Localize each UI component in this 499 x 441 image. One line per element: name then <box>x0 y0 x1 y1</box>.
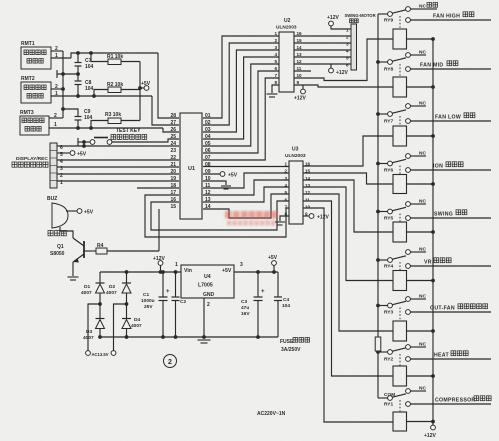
wire U1 pin12 to U3 pin3 <box>203 180 289 195</box>
wire U1 pin17 to U3 pin7 <box>145 195 289 237</box>
U1 pin 18 <box>170 183 176 189</box>
ground U1 pin10 <box>203 181 231 189</box>
wire U1 pin02 to U2 pin2 <box>203 43 279 125</box>
capacitor C4 104 <box>274 272 290 337</box>
+5V terminal U1 pin09 <box>203 172 238 179</box>
relay RY6 <box>378 151 491 194</box>
wire C9 branch <box>63 109 78 116</box>
U1 pin 21 <box>170 162 176 168</box>
display pin 2 <box>60 173 63 179</box>
wire +5V rail <box>234 270 278 274</box>
U2 pin 10 <box>297 73 303 78</box>
U3 pin 11 <box>305 197 310 202</box>
buzzer BUZ 蜂鸣器 <box>47 196 68 236</box>
swing pin 6 <box>346 63 349 68</box>
U3 pin 5 <box>284 190 287 195</box>
swing pin 2 <box>346 35 349 40</box>
RMT1 pin 2 <box>51 46 63 52</box>
node FAN MID output label <box>420 61 458 69</box>
wire U2-16 swing2 <box>294 35 351 37</box>
wire U2-12 swing6 <box>294 63 351 65</box>
connector RMT3 室外化霜传感器 <box>20 110 49 135</box>
TEST KEY 强制启动按键 pushbutton <box>90 128 147 144</box>
wire U1 pin16 to U3 pin6 <box>151 201 289 230</box>
swing pin 1 <box>346 28 349 33</box>
U1 pin 07 <box>205 155 211 161</box>
U1 pin 06 <box>205 148 211 154</box>
U1 pin 15 <box>170 204 176 210</box>
U3 pin 10 <box>305 204 311 209</box>
wire U3 output to relay RY2 coil <box>303 201 393 376</box>
U1 pin 13 <box>205 197 211 203</box>
ground U3 pin8 <box>275 216 289 225</box>
op-amp U4 L7005 regulator <box>175 262 243 308</box>
U1 pin 27 <box>170 120 176 126</box>
U3 pin 2 <box>284 169 287 174</box>
node bridge junctions <box>98 270 128 339</box>
relay RY7 <box>378 101 491 147</box>
wire U2-15 swing3 <box>294 42 351 44</box>
wire AC input left <box>86 304 100 355</box>
connector RMT1 室内环温传感器 <box>21 41 51 69</box>
wire U3 output to relay RY7 coil <box>303 136 393 166</box>
op-amp U3 ULN2003 <box>285 147 306 225</box>
node ION output label <box>433 162 463 170</box>
U1 pin 05 <box>205 141 211 147</box>
+12V terminal swing bottom <box>329 64 349 76</box>
wire U1 pin01 to U2 pin1 <box>203 36 279 118</box>
+12V coil bus <box>432 39 434 425</box>
resistor R2 10k <box>92 82 140 98</box>
U2 pin 1 <box>274 31 277 36</box>
wire U1 pin07 to U2 pin7 <box>203 78 279 160</box>
U2 pin 4 <box>274 52 277 57</box>
U3 pin 7 <box>284 204 287 209</box>
node OUT-FAN output label <box>430 304 488 312</box>
+5V terminal (pull-ups) <box>140 81 151 90</box>
wire display3 to U1 pin21 <box>57 166 179 168</box>
display pin 6 <box>60 145 63 151</box>
connector DISPLAY/REC 遥控显示面板 <box>12 143 57 188</box>
U1 pin 23 <box>170 148 176 154</box>
wire AC common bus (relay commons, via fuse) <box>376 14 380 398</box>
scan noise overlay <box>0 0 1 1</box>
U3 pin 12 <box>305 190 311 195</box>
U1 pin 02 <box>205 120 211 126</box>
U2 pin 5 <box>274 59 277 64</box>
U1 pin 28 <box>170 113 176 119</box>
wire R4 to U1 pin15 <box>158 209 160 251</box>
wire AC input right <box>111 304 126 355</box>
node SWING output label <box>434 210 467 218</box>
ground U2 pin8 <box>267 85 280 97</box>
resistor R1 10k <box>91 53 140 65</box>
+12V terminal rail <box>153 256 165 272</box>
wire U2 pin11 stub <box>294 70 311 72</box>
ground U4 <box>198 340 211 343</box>
wire U1 pin08 to U3 pin1 <box>203 166 289 168</box>
watermark <box>225 211 278 226</box>
U1 pin 12 <box>205 190 211 196</box>
wire U2 pin9 to relay RY8 coil <box>294 85 393 87</box>
wire sensor3 to U1 pin26 <box>163 128 179 132</box>
node FAN HIGH output label <box>433 12 474 20</box>
+5V pull-up bus <box>138 62 142 121</box>
wire display2 to U1 pin20 <box>57 173 179 175</box>
+5V terminal rail <box>268 255 278 272</box>
ground stub terminal <box>57 70 80 78</box>
U1 pin 03 <box>205 127 211 133</box>
U2 pin 14 <box>297 45 303 50</box>
capacitor C7 104 <box>75 53 94 74</box>
node FAN LOW output label <box>435 113 475 121</box>
wire buzzer to Q1 collector <box>60 227 73 238</box>
wire U1 pin13 to U3 pin4 <box>203 187 289 202</box>
U3 pin 4 <box>284 183 287 188</box>
U2 pin 16 <box>297 31 303 36</box>
wire U1 pin05 to U2 pin5 <box>203 64 279 146</box>
wire U2 pin10 to relay RY9 coil <box>294 39 393 81</box>
connector RMT2 室内管温传感器 <box>21 76 51 103</box>
relay RY8 <box>378 50 491 98</box>
+5V terminal buzzer <box>66 209 94 216</box>
RMT3 pin 2 <box>49 113 63 119</box>
wire U1 pin06 to U2 pin6 <box>203 71 279 153</box>
+5V terminal display <box>57 151 87 158</box>
node circled 2 <box>164 355 177 368</box>
connector SWING-MOTOR 摆叶 <box>345 13 376 70</box>
wire U1 pin18 stub <box>137 187 179 189</box>
test key ground stub <box>78 138 90 146</box>
wire sensor2 to U1 pin27 <box>152 96 179 125</box>
wire U2-13 swing5 <box>294 56 351 58</box>
node AC220V~1N label <box>257 411 286 417</box>
display pin 4 <box>60 159 63 165</box>
relay RY9 <box>378 3 491 50</box>
transistor Q1 S8050 <box>50 238 84 263</box>
display pin 3 <box>60 166 63 172</box>
U2 pin 7 <box>274 73 277 78</box>
wire U3 output to relay RY1 coil <box>303 208 393 422</box>
U3 pin 1 <box>284 162 287 167</box>
swing pin 3 <box>346 42 349 47</box>
U2 pin 9 <box>297 80 300 85</box>
U1 pin 16 <box>170 197 176 203</box>
swing pin 4 <box>346 49 349 54</box>
wire U1 pin11 to U3 pin2 <box>203 173 289 188</box>
U1 pin 01 <box>205 113 211 119</box>
relay RY3 <box>378 294 491 342</box>
U3 pin 3 <box>284 176 287 181</box>
U1 pin 14 <box>205 204 211 210</box>
node VR output label <box>424 258 451 266</box>
display pin 1 <box>60 180 63 186</box>
+12V terminal relay bus <box>424 425 436 439</box>
relay RY5 <box>378 199 491 243</box>
U1 pin 04 <box>205 134 211 140</box>
U3 pin 13 <box>305 183 311 188</box>
wire display4 to U1 pin22 <box>57 159 179 161</box>
+12V terminal U2 pin9 <box>294 85 306 102</box>
node sensor1 signal wire <box>71 51 158 58</box>
wire test key to U1 pin25 <box>112 139 179 142</box>
U3 pin 6 <box>284 197 287 202</box>
U1 pin 19 <box>170 176 176 182</box>
RMT3 pin 1 <box>49 122 163 128</box>
RMT1 pin 1 <box>51 53 71 59</box>
wire sensor1 to U1 pin28 <box>158 53 179 118</box>
fuse FUSE 熔断器 3A/250V <box>280 337 381 353</box>
U1 pin 10 <box>205 176 211 182</box>
diode D1 4007 <box>81 272 105 304</box>
wire display1 to U1 pin19 <box>57 180 179 182</box>
node AC13.5V label <box>92 352 109 357</box>
wire U3 output to relay RY3 coil <box>303 194 393 331</box>
wire display6 to U1 pin24 <box>57 142 179 148</box>
U2 pin 15 <box>297 38 303 43</box>
ground Q1 emitter <box>68 262 79 280</box>
node COMPRESSOR output label <box>435 396 491 404</box>
U1 pin 08 <box>205 162 211 168</box>
U1 pin 26 <box>170 127 176 133</box>
+12V terminal swing top <box>327 15 351 29</box>
node HEAT output label <box>434 351 468 359</box>
capacitor C2 <box>172 270 187 339</box>
diode D2 4007 <box>106 272 131 304</box>
U2 pin 6 <box>274 66 277 71</box>
relay RY4 <box>378 247 491 291</box>
U2 pin 12 <box>297 59 303 64</box>
wire +12V rail <box>100 270 181 274</box>
relay RY1 <box>378 386 491 432</box>
U3 pin 8 <box>284 212 287 217</box>
wire U1 pin14 to U3 pin5 <box>203 194 289 218</box>
U1 pin 20 <box>170 169 176 175</box>
capacitor C9 104 <box>75 109 93 130</box>
capacitor C1 1000u 25V <box>141 272 170 339</box>
U2 pin 3 <box>274 45 277 50</box>
resistor R4 (base) <box>84 243 159 254</box>
U3 pin 15 <box>305 169 311 174</box>
U2 pin 2 <box>274 38 277 43</box>
U1 pin 11 <box>205 183 211 189</box>
U3 pin 14 <box>305 176 311 181</box>
U2 pin 13 <box>297 52 303 57</box>
U3 pin 9 <box>305 212 308 217</box>
U1 pin 09 <box>205 169 211 175</box>
U2 pin 8 <box>274 80 277 85</box>
U2 pin 11 <box>297 66 302 71</box>
wire U1 pin03 to U2 pin3 <box>203 50 279 132</box>
RMT2 pin 2 <box>51 84 65 91</box>
wire U3 output to relay RY6 coil <box>303 173 393 184</box>
wire U2-14 swing4 <box>294 49 351 51</box>
U1 pin 17 <box>170 190 176 196</box>
diode D3 4007 <box>83 304 105 341</box>
U3 pin 16 <box>305 162 311 167</box>
wire U3 output to relay RY5 coil <box>303 180 393 232</box>
wire U3 output to relay RY4 coil <box>303 187 393 281</box>
ground bus (sensor commons) <box>61 51 65 118</box>
+12V terminal U3 pin9 <box>303 214 329 221</box>
op-amp U2 ULN2003 <box>276 18 297 92</box>
U1 pin 25 <box>170 134 176 140</box>
op-amp U1 (MCU) <box>180 113 202 219</box>
wire ground rail <box>100 336 278 338</box>
wire U1 pin04 to U2 pin4 <box>203 57 279 139</box>
diode D4 4007 <box>122 304 142 337</box>
U1 pin 24 <box>170 141 176 147</box>
relay RY2 <box>378 342 491 387</box>
capacitor C8 104 <box>75 74 94 98</box>
U1 pin 22 <box>170 155 176 161</box>
resistor R3 10k <box>89 112 140 130</box>
wire U4 GND to ground rail <box>202 298 206 339</box>
capacitor C3 47u 16V <box>241 272 265 339</box>
RMT2 pin 1 <box>51 91 152 97</box>
swing pin 5 <box>346 56 349 61</box>
display pin 5 <box>60 152 63 158</box>
